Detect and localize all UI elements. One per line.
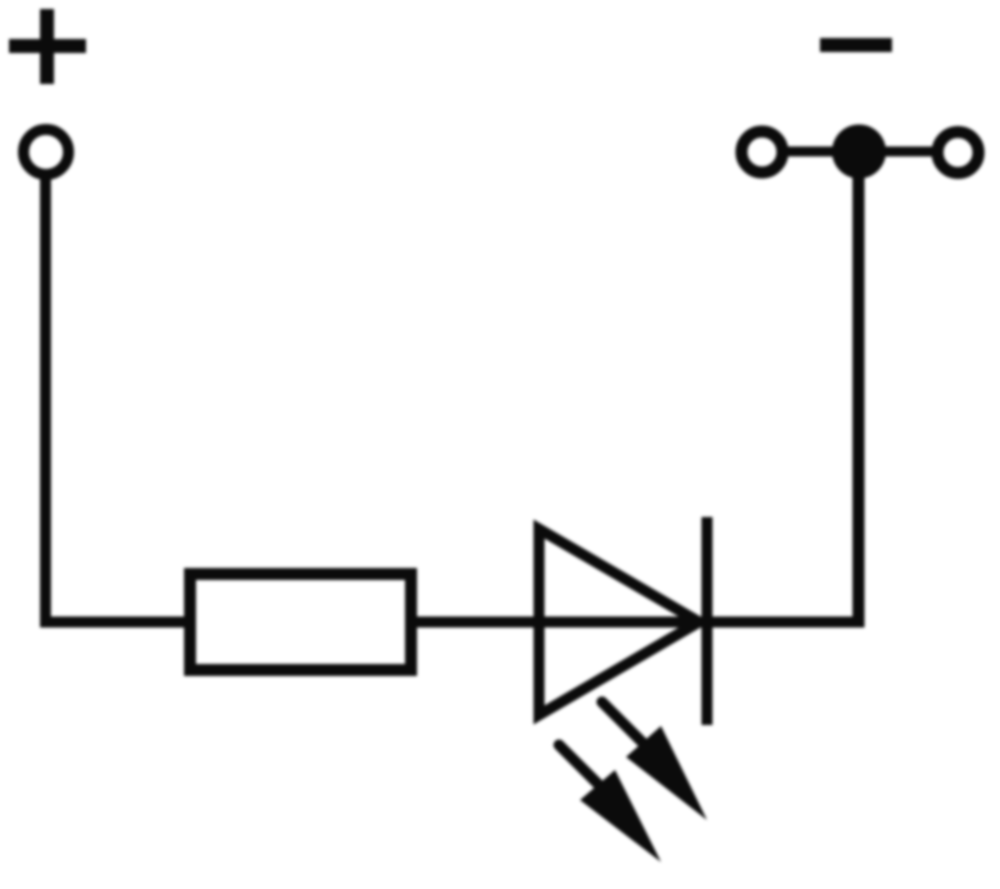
LED D1 cathode bar <box>702 517 713 725</box>
wire: right vertical from bottom-right corner up to junction <box>853 152 865 628</box>
wire: left vertical from T1 down to bottom-left corner <box>46 172 121 622</box>
terminal T1 (left, + input, open circle) <box>24 130 69 175</box>
wire: junction to right terminal T3 <box>859 147 958 157</box>
junction node (filled dot, - bus) <box>832 125 886 179</box>
LED emission arrow 1 (upper) tail <box>602 702 648 748</box>
terminal T2 (top, - output left, open circle) <box>742 132 783 173</box>
LED emission arrow 2 (lower) head <box>580 770 661 862</box>
LED emission arrow 1 (upper) head <box>626 726 707 820</box>
plus polarity symbol (+) <box>9 9 86 84</box>
wire: junction to left terminal T2 <box>762 147 859 157</box>
minus polarity symbol (-) <box>820 38 892 52</box>
wire: bottom horizontal into resistor <box>110 617 190 628</box>
LED emission arrow 2 (lower) tail <box>559 745 605 791</box>
terminal T3 (top, - output right, open circle) <box>938 132 979 173</box>
resistor R1 (rectangle body) <box>190 574 411 670</box>
LED D1 anode triangle <box>539 529 699 715</box>
wire: resistor to LED anode and through to right corner <box>411 617 859 628</box>
